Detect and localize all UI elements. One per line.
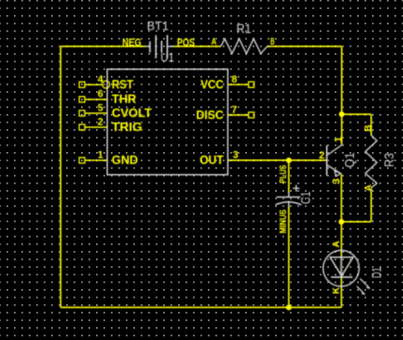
pin 4 RST xyxy=(79,75,133,92)
svg-text:8: 8 xyxy=(232,74,238,85)
pin 1 GND xyxy=(79,150,138,167)
svg-text:U1: U1 xyxy=(161,53,175,65)
svg-text:BT1: BT1 xyxy=(147,21,169,33)
svg-text:K: K xyxy=(331,287,342,294)
wire battery NEG to left bus xyxy=(61,45,146,47)
resistor R1 xyxy=(211,21,274,54)
junction C1/bottom rail xyxy=(286,305,292,311)
transistor Q1 xyxy=(319,136,357,184)
wire junction through LED to bottom rail xyxy=(340,222,342,308)
svg-text:OUT: OUT xyxy=(200,155,224,167)
svg-text:Q1: Q1 xyxy=(343,152,357,167)
svg-text:A: A xyxy=(211,37,216,48)
svg-text:6: 6 xyxy=(98,89,104,100)
wire C1 bottom lead xyxy=(288,206,290,307)
wire battery POS to R1 xyxy=(173,45,221,47)
wire left bus vertical xyxy=(60,46,62,307)
svg-text:5: 5 xyxy=(98,103,104,114)
wire bottom rail xyxy=(61,306,342,308)
svg-text:DISC: DISC xyxy=(196,110,224,122)
svg-text:R3: R3 xyxy=(383,153,397,167)
svg-text:1: 1 xyxy=(333,136,345,142)
pin 5 CVOLT xyxy=(79,103,152,120)
junction emitter/R3/LED xyxy=(339,219,345,225)
pin 3 OUT xyxy=(200,150,239,167)
svg-text:THR: THR xyxy=(112,94,137,106)
svg-text:2: 2 xyxy=(98,117,104,128)
battery BT1 xyxy=(122,21,194,58)
svg-text:MINUS: MINUS xyxy=(278,210,289,234)
pin 6 THR xyxy=(79,89,137,106)
svg-text:CVOLT: CVOLT xyxy=(112,108,152,120)
pin 2 TRIG xyxy=(79,117,142,134)
LED D1 xyxy=(323,241,384,296)
junction R1/R3/Q1 collector xyxy=(339,111,345,117)
wire OUT pin to Q1 base xyxy=(228,159,326,161)
svg-text:POS: POS xyxy=(177,37,195,49)
wire Q1 emitter down to junction xyxy=(340,174,342,222)
svg-text:R1: R1 xyxy=(236,21,251,36)
svg-text:TRIG: TRIG xyxy=(112,122,143,134)
wire right vertical to Q1 collector xyxy=(341,46,343,144)
svg-text:7: 7 xyxy=(232,105,238,116)
capacitor C1 xyxy=(275,165,313,234)
svg-text:C1: C1 xyxy=(299,191,313,204)
svg-text:4: 4 xyxy=(98,75,104,86)
pin 7 DISC xyxy=(196,105,254,122)
svg-text:GND: GND xyxy=(112,155,138,167)
svg-text:RST: RST xyxy=(112,79,134,91)
pin 8 VCC xyxy=(201,74,255,91)
svg-text:PLUS: PLUS xyxy=(278,165,289,183)
op-amp U1 555 IC box xyxy=(107,69,228,175)
svg-text:A: A xyxy=(363,184,374,191)
svg-text:3: 3 xyxy=(233,150,239,161)
svg-text:B: B xyxy=(363,125,374,132)
IC U1 refdes xyxy=(161,53,175,65)
wire C1 top lead xyxy=(288,160,290,192)
svg-text:B: B xyxy=(270,37,274,48)
wire R1 to top right corner xyxy=(267,45,342,47)
svg-text:3: 3 xyxy=(331,178,343,184)
svg-text:NEG: NEG xyxy=(122,37,141,49)
wire junction to R3 top xyxy=(342,114,372,135)
svg-text:D1: D1 xyxy=(370,267,384,278)
svg-text:VCC: VCC xyxy=(201,79,224,91)
svg-text:A: A xyxy=(331,241,342,248)
svg-text:1: 1 xyxy=(98,150,104,161)
wire R3 bottom to emitter junction xyxy=(341,188,371,222)
svg-text:2: 2 xyxy=(319,150,325,161)
resistor R3 xyxy=(363,125,397,192)
junction OUT/C1 xyxy=(286,158,292,164)
